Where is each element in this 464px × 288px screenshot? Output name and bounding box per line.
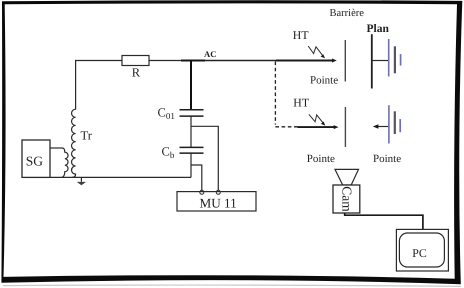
- arrowhead left-pointing: [373, 124, 379, 128]
- wire lower pointe arrow: [298, 126, 335, 128]
- electrode plan plate: [371, 34, 373, 88]
- transformer Tr secondary coil: [72, 109, 76, 177]
- resistor R: [122, 56, 149, 66]
- terminal node left on MU11: [200, 190, 204, 194]
- wire branch to MU11 right terminal: [191, 126, 218, 190]
- box Cam: [333, 185, 360, 213]
- svg-text:Pointe: Pointe: [310, 75, 338, 87]
- ground bars bottom group: [388, 105, 390, 143]
- wire R to AC junction: [149, 60, 191, 62]
- wire C01 to Cb: [190, 117, 192, 148]
- wire Cam to PC: [345, 213, 423, 229]
- wire right pointe arrow (left-pointing): [377, 126, 389, 128]
- svg-text:Pointe: Pointe: [307, 153, 335, 165]
- wire Cb down to rail: [190, 153, 192, 177]
- electrode barrier top (pointe side): [344, 40, 346, 82]
- dashed wire horizontal to lower gap: [275, 126, 297, 128]
- wire branch to MU11 left terminal: [191, 165, 202, 190]
- camera funnel: [335, 169, 359, 185]
- capacitor C01: [180, 110, 204, 116]
- transformer T primary coil: [62, 148, 68, 177]
- wire AC to pointe arrow: [276, 60, 333, 62]
- svg-text:R: R: [132, 66, 141, 80]
- wire secondary top riser: [76, 61, 122, 110]
- svg-text:SG: SG: [26, 153, 44, 168]
- svg-text:Pointe: Pointe: [373, 153, 401, 165]
- spark arrow HT top: [308, 46, 322, 55]
- arrowhead lower pointe: [334, 125, 339, 129]
- electrode barrier bottom (pointe): [344, 107, 346, 147]
- wire plan to ground: [372, 60, 388, 62]
- svg-text:Barrière: Barrière: [330, 8, 365, 19]
- node junction vertical to C01: [190, 60, 192, 110]
- svg-text:HT: HT: [293, 96, 310, 110]
- svg-text:PC: PC: [412, 246, 427, 260]
- frame shadow bottom: [3, 285, 461, 286]
- ground symbol: [80, 177, 82, 181]
- capacitor Cb: [180, 147, 204, 153]
- svg-text:MU 11: MU 11: [200, 195, 237, 210]
- box MU 11: [177, 192, 256, 211]
- spark arrow HT bottom: [309, 114, 323, 122]
- wire ground rail: [50, 176, 191, 178]
- wire SG top to primary: [50, 147, 63, 149]
- svg-text:Tr: Tr: [81, 129, 93, 143]
- arrowhead top pointe: [332, 59, 337, 63]
- svg-text:Plan: Plan: [367, 23, 390, 35]
- box PC inner: [399, 233, 444, 267]
- terminal node right on MU11: [216, 190, 220, 194]
- svg-text:Cam: Cam: [340, 186, 355, 212]
- dashed wire from AC down: [274, 62, 276, 125]
- ground bars top group: [388, 39, 390, 77]
- svg-text:AC: AC: [204, 49, 216, 59]
- box SG: [22, 140, 50, 177]
- box PC outer: [396, 229, 448, 271]
- svg-text:HT: HT: [293, 28, 310, 42]
